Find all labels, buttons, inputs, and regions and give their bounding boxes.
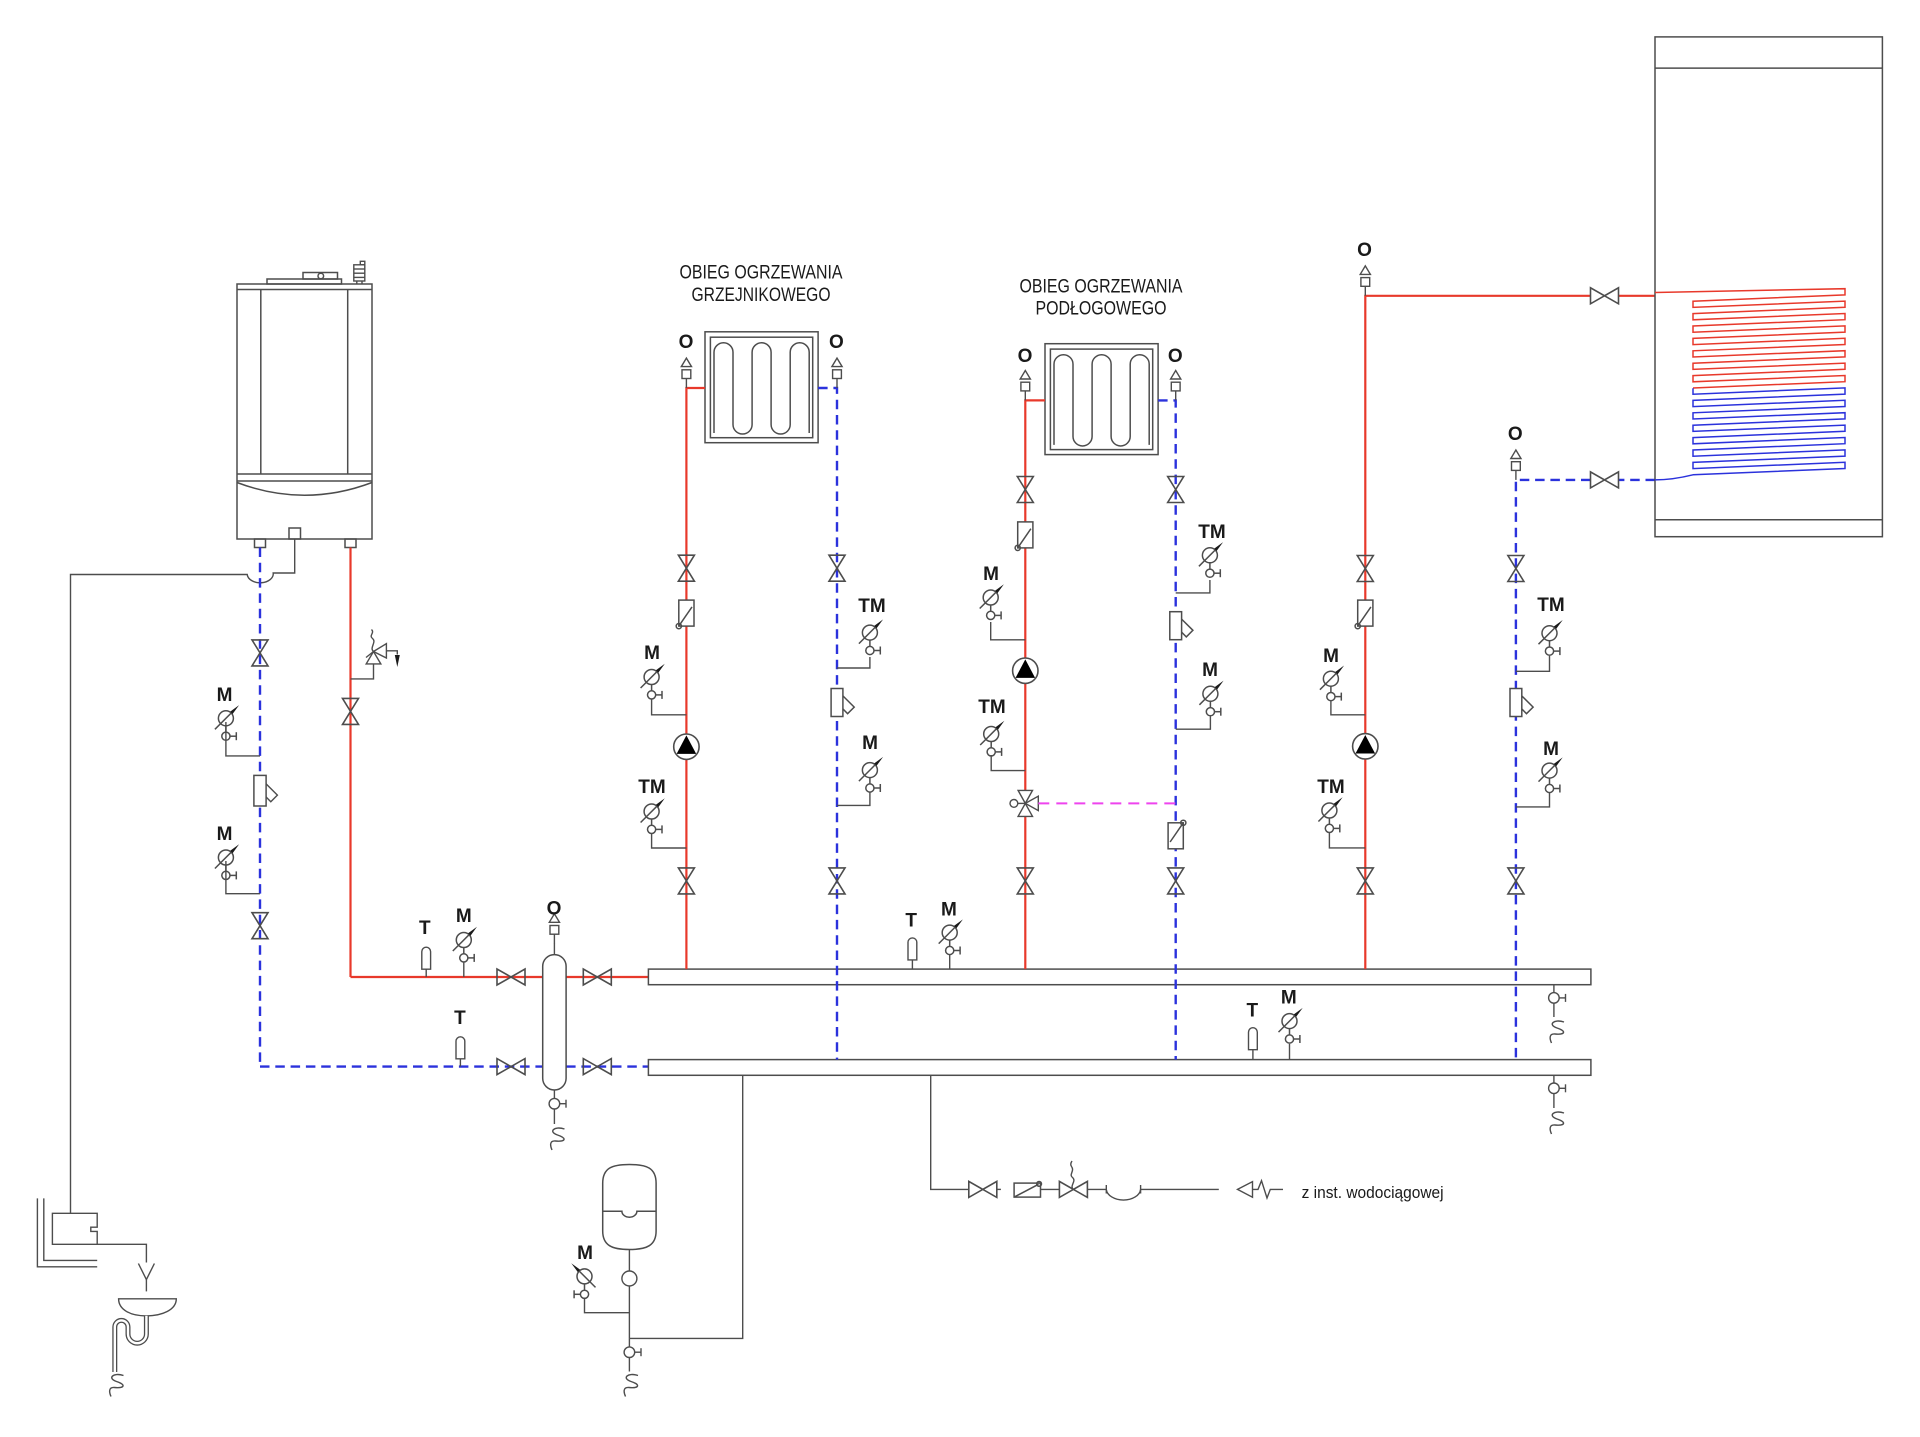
DHW loading return pipe (blue dashed) bbox=[1516, 480, 1655, 1060]
svg-text:z inst. wodociągowej: z inst. wodociągowej bbox=[1302, 1184, 1444, 1202]
lower manifold drain cock bbox=[1553, 1075, 1555, 1083]
safety valve bbox=[366, 630, 397, 664]
svg-text:M: M bbox=[644, 643, 660, 664]
DHW storage tank bbox=[1655, 37, 1882, 537]
check valve bbox=[1355, 600, 1373, 629]
thermo-manometer TM bbox=[991, 755, 1025, 771]
svg-text:OBIEG OGRZEWANIA: OBIEG OGRZEWANIA bbox=[1020, 276, 1183, 298]
shut-off valve bbox=[969, 1181, 997, 1197]
pipe break squiggle bbox=[110, 1374, 124, 1396]
svg-text:M: M bbox=[1323, 646, 1339, 667]
svg-text:M: M bbox=[456, 906, 472, 927]
shut-off valve on return bbox=[829, 555, 845, 581]
shut-off valve bbox=[497, 1059, 525, 1075]
drain cock below junction bbox=[628, 1338, 630, 1347]
shut-off valve bbox=[497, 969, 525, 985]
manometer M on return bbox=[837, 793, 870, 806]
svg-text:M: M bbox=[1202, 660, 1218, 681]
safety valve tee bbox=[351, 664, 374, 679]
supply pipe from boiler (red) bbox=[349, 548, 351, 978]
shut-off valve bbox=[583, 1059, 611, 1075]
air vent O tank return bbox=[1511, 450, 1521, 480]
check valve on return bbox=[1168, 820, 1186, 849]
thermometer T bbox=[425, 969, 427, 977]
shut-off valve bbox=[583, 969, 611, 985]
svg-text:O: O bbox=[1018, 346, 1033, 367]
circulation pump bbox=[1013, 658, 1038, 683]
svg-text:TM: TM bbox=[1317, 777, 1344, 798]
balancing valve bbox=[1510, 689, 1533, 717]
manometer M at vessel bbox=[585, 1298, 630, 1313]
boiler connection stubs bbox=[255, 528, 357, 548]
svg-text:M: M bbox=[941, 900, 957, 921]
vessel isolation valve bbox=[628, 1250, 630, 1272]
shut-off valve on return bbox=[1508, 868, 1524, 894]
manometer M bbox=[991, 622, 1026, 640]
svg-text:O: O bbox=[829, 332, 844, 353]
svg-text:M: M bbox=[217, 685, 233, 706]
hydraulic separator vessel bbox=[543, 955, 566, 1090]
heat consumer symbol (floor heating) bbox=[1045, 344, 1158, 455]
air vent O circuit 1 return bbox=[832, 358, 842, 388]
svg-text:O: O bbox=[1168, 346, 1183, 367]
svg-text:TM: TM bbox=[638, 777, 665, 798]
shut-off valve on return bbox=[829, 868, 845, 894]
shut-off valve on return bbox=[1168, 477, 1184, 503]
thermo-manometer TM on return bbox=[837, 657, 870, 668]
svg-text:PODŁOGOWEGO: PODŁOGOWEGO bbox=[1036, 298, 1167, 320]
return line from separator (blue dashed) bbox=[260, 1065, 543, 1067]
three-way mixing valve bbox=[1010, 790, 1038, 816]
check valve bbox=[1014, 1182, 1041, 1198]
manometer M on upper manifold bbox=[949, 954, 951, 969]
balancing valve bbox=[1170, 612, 1193, 640]
svg-text:T: T bbox=[905, 911, 917, 932]
return pipe from boiler (blue dashed) bbox=[259, 548, 261, 1067]
separator drain cock bbox=[553, 1090, 555, 1098]
upper manifold drain cock bbox=[1553, 985, 1555, 993]
thermo-manometer TM bbox=[652, 833, 687, 848]
gully bracket bbox=[37, 1198, 97, 1266]
manometer M on lower manifold bbox=[1289, 1044, 1291, 1060]
svg-text:M: M bbox=[217, 824, 233, 845]
air vent O on separator bbox=[553, 944, 555, 955]
control capillary line (magenta dashed) bbox=[1038, 802, 1175, 804]
manometer M on return bbox=[1516, 793, 1550, 807]
air vent O circuit 2 return bbox=[1171, 371, 1181, 401]
DHW loading supply pipe (red) bbox=[1365, 296, 1655, 969]
supply line to hydraulic separator (red) bbox=[351, 976, 543, 978]
svg-text:T: T bbox=[419, 918, 431, 939]
upper distribution manifold (supply) bbox=[648, 969, 1591, 985]
heat consumer symbol (radiator heating) bbox=[705, 332, 818, 443]
gully outlet pipe with arrow bbox=[97, 1244, 146, 1262]
pipe break squiggle bbox=[624, 1374, 638, 1396]
shut-off valve bbox=[252, 640, 268, 666]
tank heating coil cold part (blue) bbox=[1655, 388, 1845, 480]
strainer / regulating valve bbox=[254, 775, 266, 806]
svg-text:GRZEJNIKOWEGO: GRZEJNIKOWEGO bbox=[692, 284, 831, 306]
thermo-manometer TM on return bbox=[1176, 580, 1210, 593]
funnel bowl bbox=[119, 1299, 177, 1316]
make-up water drop pipe from lower manifold bbox=[931, 1075, 969, 1189]
thermo-manometer TM on return bbox=[1516, 656, 1550, 671]
manometer M bbox=[463, 962, 465, 977]
circulation pump bbox=[1353, 734, 1378, 759]
shut-off valve bbox=[1017, 477, 1033, 503]
flexible connection loop bbox=[1087, 1189, 1218, 1200]
circuit 2 return pipe (blue dashed) bbox=[1158, 400, 1176, 1059]
siphon trap bbox=[115, 1316, 147, 1372]
manometer M with cock bbox=[226, 722, 260, 756]
svg-text:O: O bbox=[1357, 240, 1372, 261]
circuit 1 supply pipe (red) bbox=[686, 388, 705, 969]
shut-off valve bbox=[1357, 556, 1373, 582]
air vent O circuit 2 supply bbox=[1020, 371, 1030, 401]
pipe break squiggle bbox=[551, 1128, 565, 1150]
shut-off valve on return bbox=[1168, 868, 1184, 894]
manometer M bbox=[1331, 700, 1365, 715]
check valve bbox=[1015, 522, 1033, 551]
thermometer T bbox=[459, 1059, 461, 1067]
manometer M with cock bbox=[226, 861, 260, 894]
svg-text:M: M bbox=[862, 733, 878, 754]
air vent O circuit 1 supply bbox=[681, 358, 691, 388]
thermometer T on lower manifold bbox=[1252, 1050, 1254, 1060]
shut-off valve on tank supply bbox=[1591, 288, 1619, 304]
shut-off valve bbox=[252, 913, 268, 939]
svg-text:O: O bbox=[1508, 424, 1523, 445]
svg-text:TM: TM bbox=[858, 596, 885, 617]
shut-off valve bbox=[678, 868, 694, 894]
thermo-manometer TM bbox=[1329, 833, 1365, 848]
pipe break squiggle bbox=[1550, 1112, 1564, 1134]
connection pipe from lower manifold to expansion vessel bbox=[629, 1075, 742, 1338]
svg-text:T: T bbox=[454, 1008, 466, 1029]
svg-text:T: T bbox=[1246, 1000, 1258, 1021]
svg-text:TM: TM bbox=[1537, 595, 1564, 616]
condensate drain pipe from boiler to floor gully bbox=[71, 539, 295, 1213]
shut-off valve on supply bbox=[343, 698, 359, 724]
circuit 2 supply pipe (red) bbox=[1025, 400, 1045, 969]
tank heating coil hot part (red) bbox=[1655, 289, 1845, 388]
svg-text:M: M bbox=[1543, 739, 1559, 760]
lower distribution manifold (return) bbox=[648, 1060, 1591, 1076]
circulation pump bbox=[674, 734, 699, 759]
circuit 1 return pipe (blue dashed) bbox=[818, 388, 837, 1060]
water-supply connection arrow bbox=[1238, 1182, 1253, 1198]
shut-off valve on return bbox=[1508, 556, 1524, 582]
svg-text:M: M bbox=[1281, 987, 1297, 1008]
pressure reducing valve with spring bbox=[1059, 1181, 1087, 1197]
thermometer T on upper manifold bbox=[911, 960, 913, 969]
svg-text:M: M bbox=[983, 564, 999, 585]
boiler (gas wall-hung) bbox=[237, 273, 372, 540]
svg-text:TM: TM bbox=[1198, 522, 1225, 543]
shut-off valve bbox=[1357, 868, 1373, 894]
check valve bbox=[676, 600, 694, 629]
svg-text:TM: TM bbox=[978, 697, 1005, 718]
boiler flue bbox=[354, 261, 365, 284]
shut-off valve bbox=[678, 555, 694, 581]
balancing valve bbox=[831, 689, 854, 717]
air vent O tank supply bbox=[1360, 266, 1370, 296]
pipe break squiggle bbox=[1550, 1021, 1564, 1043]
expansion vessel bbox=[603, 1165, 656, 1250]
floor gully box bbox=[52, 1213, 97, 1244]
svg-text:OBIEG OGRZEWANIA: OBIEG OGRZEWANIA bbox=[680, 262, 843, 284]
svg-text:O: O bbox=[547, 899, 562, 920]
shut-off valve on tank return bbox=[1591, 472, 1619, 488]
manometer M on return bbox=[1176, 715, 1211, 729]
shut-off valve bbox=[1017, 868, 1033, 894]
manometer M bbox=[652, 699, 687, 715]
svg-text:O: O bbox=[679, 332, 694, 353]
svg-text:M: M bbox=[577, 1243, 593, 1264]
